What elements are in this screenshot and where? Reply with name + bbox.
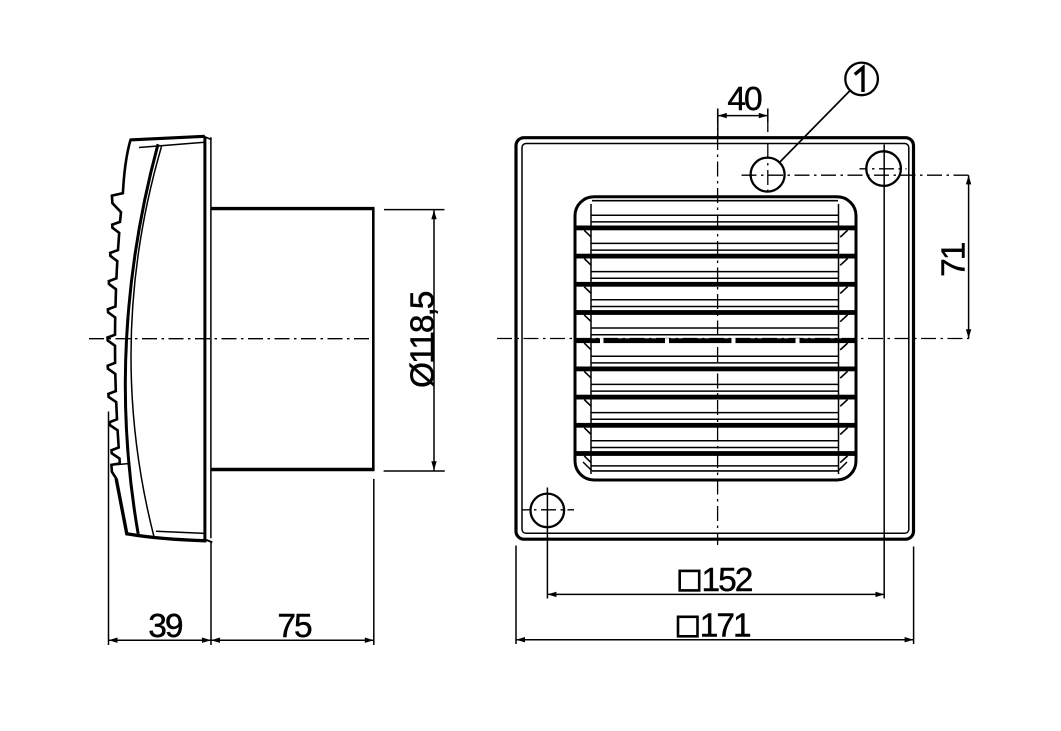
svg-text:71: 71	[936, 243, 973, 277]
svg-text:39: 39	[148, 608, 183, 645]
svg-text:171: 171	[700, 608, 750, 645]
svg-text:40: 40	[727, 81, 762, 118]
svg-text:Ø118,5: Ø118,5	[405, 291, 442, 388]
svg-text:152: 152	[702, 562, 752, 599]
svg-text:75: 75	[277, 608, 312, 645]
